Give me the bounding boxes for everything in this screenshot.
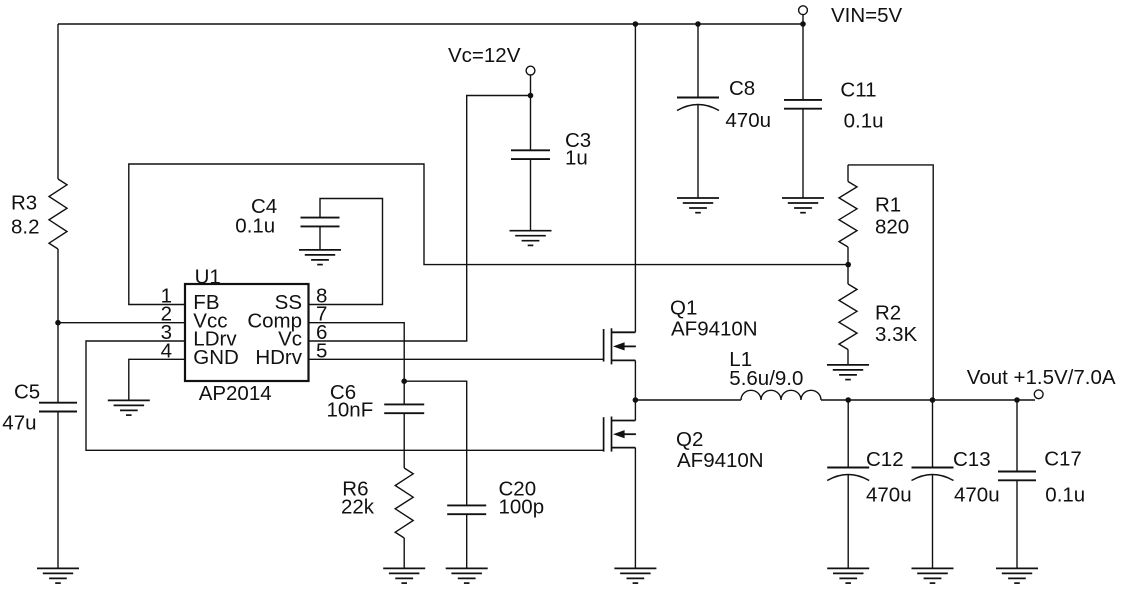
wire R3 to C5 xyxy=(57,249,59,403)
svg-text:8.2: 8.2 xyxy=(11,216,40,239)
node Comp / C20 branch node xyxy=(401,378,407,384)
node VIN / Q1 drain branch xyxy=(633,21,639,27)
svg-text:C11: C11 xyxy=(840,78,876,101)
wire Vout to C17 xyxy=(1016,400,1018,472)
capacitor C20 xyxy=(447,505,486,514)
ground (U1 GND) xyxy=(108,400,150,415)
wire C5 to ground xyxy=(57,412,59,569)
wire Comp pin 7 to C6 xyxy=(309,323,405,405)
wire C4 to ground xyxy=(319,226,321,250)
wire R2 to ground xyxy=(847,350,849,365)
wire C20 to ground xyxy=(466,514,468,568)
node Vc node xyxy=(528,93,534,99)
wire SS pin 8 to C4 xyxy=(309,199,383,305)
svg-text:470u: 470u xyxy=(954,484,1000,507)
svg-text:5.6u/9.0: 5.6u/9.0 xyxy=(729,367,803,390)
capacitor C6 xyxy=(384,404,424,413)
wire C3 to ground xyxy=(530,159,532,231)
svg-text:0.1u: 0.1u xyxy=(1045,484,1085,507)
wire C11 to ground xyxy=(802,109,804,198)
svg-text:C12: C12 xyxy=(866,448,904,471)
svg-text:47u: 47u xyxy=(2,412,36,435)
wire Vcc node to U1 pin 2 xyxy=(58,322,185,324)
capacitor C8 (electrolytic) xyxy=(677,98,719,111)
svg-text:470u: 470u xyxy=(866,484,912,507)
svg-text:3.3K: 3.3K xyxy=(875,323,917,346)
resistor R3 xyxy=(49,179,67,249)
node Vcc node xyxy=(55,320,61,326)
wire U1 pin 4 to ground xyxy=(129,359,185,400)
resistor R1 xyxy=(839,182,857,248)
svg-text:Q1: Q1 xyxy=(670,297,697,320)
capacitor C17 xyxy=(998,472,1036,481)
svg-text:HDrv: HDrv xyxy=(255,346,302,369)
op-amp / controller U1 AP2014 box xyxy=(185,284,309,381)
svg-text:AP2014: AP2014 xyxy=(199,382,272,405)
terminal Vc=12V xyxy=(526,66,535,95)
resistor R6 xyxy=(395,468,413,538)
wire switch node to L1 xyxy=(635,399,741,401)
svg-text:820: 820 xyxy=(875,216,909,239)
ground (C3) xyxy=(510,231,552,246)
svg-text:470u: 470u xyxy=(725,109,771,132)
wire R6 to ground xyxy=(403,538,405,568)
node Vout / C12 node xyxy=(845,397,851,403)
node Vout / C13 node xyxy=(930,397,936,403)
wire switch node to Q2 drain xyxy=(634,400,636,421)
svg-text:R3: R3 xyxy=(11,192,37,215)
wire Vc pin 6 to Vc=12V source xyxy=(309,96,531,342)
wire Vout to C13 xyxy=(932,400,934,468)
svg-text:U1: U1 xyxy=(195,266,221,289)
ground (C17) xyxy=(996,568,1038,583)
transistor Q1 (AF9410N) xyxy=(604,328,636,364)
ground (Q2) xyxy=(614,568,656,583)
wire Vout rail xyxy=(821,399,1035,401)
ground (C13) xyxy=(912,568,954,583)
wire LDrv pin 3 to Q2 gate xyxy=(86,341,604,450)
svg-text:R1: R1 xyxy=(875,194,901,217)
wire Vout to C12 xyxy=(847,400,849,468)
ground (C4) xyxy=(299,250,341,265)
ground (C8) xyxy=(677,198,719,213)
ground (R6) xyxy=(383,568,425,583)
terminal Vout xyxy=(1034,390,1043,399)
svg-text:10nF: 10nF xyxy=(327,398,374,421)
wire Vc node to C3 xyxy=(530,96,532,151)
svg-text:Q2: Q2 xyxy=(676,428,703,451)
wire C6 to R6 xyxy=(403,413,405,468)
capacitor C12 (electrolytic) xyxy=(827,468,869,481)
terminal VIN xyxy=(799,6,808,24)
capacitor C11 xyxy=(784,100,822,109)
resistor R2 xyxy=(839,284,857,350)
wire C12 to ground xyxy=(847,474,849,568)
capacitor C3 xyxy=(511,150,550,159)
transistor Q2 (AF9410N) xyxy=(604,417,636,452)
svg-text:1u: 1u xyxy=(565,146,588,169)
inductor L1 xyxy=(741,390,821,400)
wire Comp node to C20 xyxy=(404,381,467,505)
capacitor C4 xyxy=(301,218,340,227)
capacitor C13 (electrolytic) xyxy=(912,468,954,481)
wire FB net (pin 1 to R1/R2 divider) xyxy=(129,164,848,305)
wire VIN to C8 xyxy=(697,24,699,98)
svg-text:22k: 22k xyxy=(341,495,375,518)
wire VIN to C11 xyxy=(802,24,804,100)
wire C8 to ground xyxy=(697,104,699,198)
svg-text:100p: 100p xyxy=(499,495,545,518)
ground (R2) xyxy=(827,365,869,380)
wire C13 to ground xyxy=(932,474,934,568)
capacitor C5 xyxy=(39,403,77,412)
wire R1 top to Vout xyxy=(848,165,933,400)
wire R1 to R2 xyxy=(847,247,849,284)
wire VIN rail to Q1 drain xyxy=(634,24,636,332)
wire C17 to ground xyxy=(1016,480,1018,568)
node VIN / C8 branch xyxy=(695,21,701,27)
node Vout / C17 node xyxy=(1014,397,1020,403)
wire HDrv pin 5 to Q1 gate xyxy=(309,358,604,360)
svg-text:R2: R2 xyxy=(875,302,901,325)
svg-text:GND: GND xyxy=(193,346,239,369)
svg-text:AF9410N: AF9410N xyxy=(671,317,758,340)
wire Q2 source to ground xyxy=(634,448,636,569)
svg-text:C8: C8 xyxy=(729,77,755,100)
ground (C11) xyxy=(782,198,824,213)
node VIN / C11 branch xyxy=(800,21,806,27)
svg-text:C13: C13 xyxy=(953,448,991,471)
wire to R1 xyxy=(847,165,849,182)
wire VIN top rail xyxy=(58,23,803,25)
svg-text:C17: C17 xyxy=(1044,448,1082,471)
node switch node xyxy=(633,397,639,403)
svg-text:C5: C5 xyxy=(14,380,40,403)
svg-text:Vc=12V: Vc=12V xyxy=(448,44,521,67)
ground (C20) xyxy=(446,568,488,583)
svg-text:0.1u: 0.1u xyxy=(235,214,275,237)
wire Q1 source to switch node xyxy=(634,360,636,400)
svg-text:AF9410N: AF9410N xyxy=(677,449,764,472)
svg-text:Vout +1.5V/7.0A: Vout +1.5V/7.0A xyxy=(967,366,1116,389)
ground (C12) xyxy=(827,568,869,583)
svg-text:VIN=5V: VIN=5V xyxy=(831,4,903,27)
node FB divider node xyxy=(845,262,851,268)
wire VIN to R3 xyxy=(57,24,59,179)
svg-text:0.1u: 0.1u xyxy=(844,109,884,132)
ground (C5) xyxy=(37,568,79,583)
